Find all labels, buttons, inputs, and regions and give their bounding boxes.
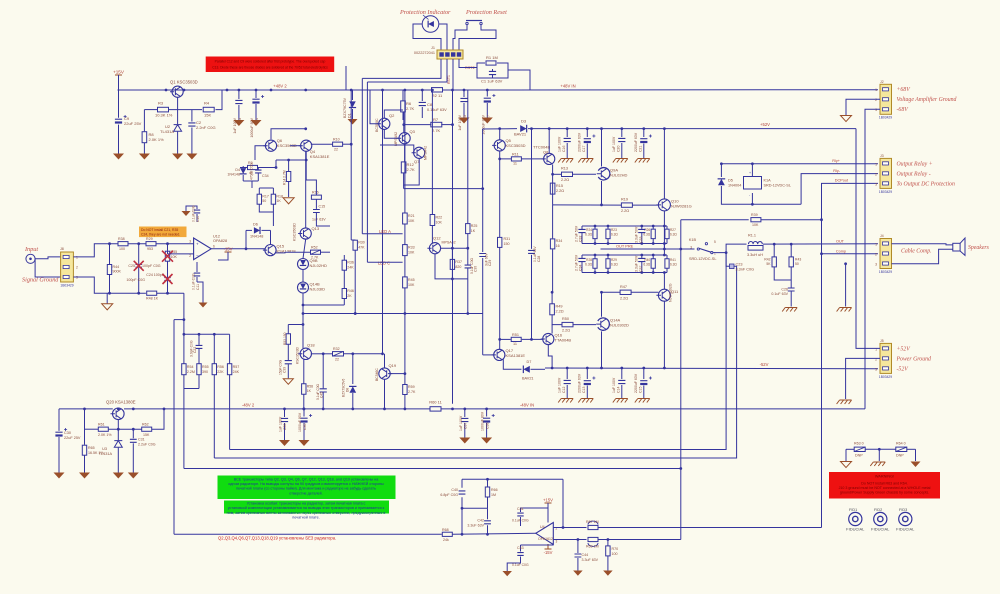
svg-text:2.2Ω: 2.2Ω	[561, 178, 569, 182]
svg-text:J10 3 ground must be NOT conne: J10 3 ground must be NOT connected at a …	[839, 486, 931, 490]
svg-text:J2: J2	[880, 80, 884, 84]
power ground solid	[911, 462, 921, 468]
svg-text:R44: R44	[113, 265, 120, 269]
resistor R31 150	[499, 159, 501, 238]
svg-text:C25: C25	[128, 264, 135, 268]
svg-text:2.7K: 2.7K	[408, 390, 416, 394]
svg-text:U4: U4	[540, 525, 545, 529]
svg-text:2.7K: 2.7K	[406, 106, 415, 111]
svg-text:900K: 900K	[113, 270, 122, 274]
svg-text:2.2uF C0G: 2.2uF C0G	[138, 443, 156, 447]
svg-text:C42: C42	[477, 519, 484, 523]
svg-text:1: 1	[76, 256, 78, 260]
capacitor C17 2200uF 63V	[586, 129, 588, 137]
svg-text:C20: C20	[617, 146, 621, 152]
svg-text:LED C: LED C	[378, 261, 390, 266]
transistor Q18 KSC3503D	[300, 348, 311, 359]
capacitor C14 1uF 100V	[621, 368, 623, 379]
svg-text:печатной плате.: печатной плате.	[292, 516, 320, 520]
vertical from Q12 node down to mid wire	[467, 279, 469, 314]
feedback loop wire 3	[184, 468, 681, 470]
svg-text:390: 390	[202, 370, 208, 374]
svg-text:3.3uF 50V: 3.3uF 50V	[635, 255, 639, 272]
long bus wire C	[366, 82, 368, 262]
wire Q1 base to divider	[177, 97, 179, 109]
svg-text:100pF C0G: 100pF C0G	[142, 264, 161, 268]
svg-text:3.3uF 63V: 3.3uF 63V	[582, 558, 599, 562]
op-amp supply bypass cap top C10	[196, 214, 198, 222]
op-amp output wire	[211, 248, 265, 250]
wire R67 to DCP vertical	[598, 527, 822, 529]
power -15V at op-amp	[225, 252, 232, 257]
svg-text:1B03429: 1B03429	[879, 190, 892, 194]
svg-text:C37: C37	[463, 423, 467, 429]
svg-text:Q12: Q12	[433, 236, 441, 241]
svg-text:R34: R34	[556, 239, 563, 243]
svg-text:R64 0: R64 0	[896, 442, 906, 446]
resistor R42 5K	[773, 244, 775, 256]
power rail -48V	[59, 408, 113, 410]
svg-text:C17: C17	[582, 146, 586, 152]
capacitor C25 100pF (not installed)	[138, 244, 140, 264]
resistor R25 1K	[467, 90, 469, 223]
capacitor C12 1uF 100V	[566, 368, 568, 379]
svg-text:1000uF 80V: 1000uF 80V	[481, 114, 485, 134]
resistor R70 100	[607, 540, 609, 546]
transistor Q12 MPSA42	[429, 243, 440, 254]
-52V power rail	[545, 367, 878, 370]
svg-text:Cable Comp.: Cable Comp.	[901, 249, 932, 255]
svg-text:C44: C44	[582, 553, 589, 557]
wire R54 R55 bottoms	[183, 375, 185, 389]
capacitor C30 22uF 25V	[58, 409, 60, 431]
svg-text:Q20 KSA1380E: Q20 KSA1380E	[106, 399, 136, 404]
resistor R29 953	[128, 243, 146, 245]
svg-text:1K: 1K	[276, 199, 281, 203]
svg-text:3: 3	[690, 246, 692, 250]
svg-text:R32: R32	[333, 347, 340, 351]
svg-text:BAV21: BAV21	[514, 132, 527, 137]
vertical x563 to servo +in	[562, 479, 564, 527]
svg-text:C23: C23	[736, 263, 743, 267]
svg-text:R26: R26	[644, 228, 650, 232]
earth ground below C39	[283, 379, 293, 385]
transistor Q6 KSC3503D	[265, 140, 276, 151]
svg-text:2: 2	[875, 98, 877, 102]
svg-text:R29: R29	[611, 258, 617, 262]
long bus wire E (R21 column)	[404, 90, 406, 213]
svg-text:R30: R30	[358, 241, 365, 245]
svg-text:TL431A: TL431A	[99, 452, 113, 456]
svg-text:+48V 2: +48V 2	[273, 83, 287, 88]
ground below R8	[139, 154, 150, 160]
svg-text:Rly+: Rly+	[832, 159, 840, 163]
svg-text:R55: R55	[202, 365, 209, 369]
capacitor C34 470pF C0G	[257, 168, 259, 170]
wire stub to servo column	[174, 319, 184, 321]
resistor R52 2.7K	[311, 250, 321, 254]
svg-text:K1B: K1B	[689, 238, 697, 242]
svg-text:OUT: OUT	[836, 239, 845, 243]
connector J3 output relay	[880, 158, 892, 188]
svg-text:FIDUCIAL: FIDUCIAL	[871, 527, 890, 532]
chassis ground below C20	[613, 159, 628, 163]
capacitor C45 0.1uF C0G	[311, 353, 323, 355]
wire Q15 emitter right	[275, 251, 285, 254]
svg-text:2: 2	[875, 173, 877, 177]
op-amp supply bypass cap bottom C11	[196, 262, 198, 272]
svg-text:1000uF 80V: 1000uF 80V	[298, 412, 302, 432]
capacitor C33 3.3uF 50V	[641, 226, 643, 229]
svg-text:11: 11	[513, 162, 517, 166]
connector J1 0022272041	[437, 50, 463, 59]
svg-text:Signal Ground: Signal Ground	[22, 277, 59, 284]
chassis ground below C14	[613, 399, 628, 403]
svg-text:-48V 2: -48V 2	[242, 403, 255, 408]
svg-text:10K: 10K	[408, 219, 415, 223]
connector J5 power 52V	[880, 343, 892, 373]
svg-text:2200uF 63V: 2200uF 63V	[634, 373, 638, 393]
wire C9 to ground	[118, 125, 120, 154]
svg-text:C21: C21	[639, 146, 643, 152]
resistor R47 2.2	[620, 290, 631, 294]
resistor R34 16	[552, 205, 554, 239]
svg-text:R53 150: R53 150	[283, 332, 287, 345]
svg-text:6.3Ω: 6.3Ω	[585, 233, 592, 237]
svg-text:C32: C32	[579, 236, 583, 242]
thermal diode Q9B NJL02HD	[298, 259, 309, 270]
svg-text:2: 2	[189, 254, 191, 258]
mid horizontal node wire	[303, 313, 483, 315]
svg-text:Q3: Q3	[410, 129, 416, 134]
warning red box	[829, 472, 940, 499]
ground below input network	[106, 293, 108, 304]
transistor Q2 BC550C	[379, 118, 390, 129]
resistor R8 2.0K 1%	[143, 110, 145, 132]
transistor Q4 KSA1381E	[301, 140, 312, 151]
svg-text:2.2M: 2.2M	[187, 370, 195, 374]
svg-text:Power Ground: Power Ground	[896, 357, 932, 363]
svg-text:OUT PRE: OUT PRE	[616, 244, 634, 249]
svg-text:6.3Ω: 6.3Ω	[643, 263, 650, 267]
resistor R59 2.7K	[404, 314, 406, 385]
ground below C43	[502, 571, 512, 576]
svg-text:FID2: FID2	[874, 508, 882, 512]
svg-text:3: 3	[875, 183, 877, 187]
svg-text:R45: R45	[408, 278, 415, 282]
wire Q6 collector to Q4 collector column	[271, 129, 306, 139]
resistor R57 24K	[229, 334, 231, 363]
resistor R55 390	[197, 364, 201, 375]
svg-text:6.3Ω: 6.3Ω	[670, 263, 677, 267]
connector J4 speakers	[880, 239, 892, 269]
svg-text:D8: D8	[345, 388, 349, 392]
svg-text:2.2Ω: 2.2Ω	[556, 310, 564, 314]
wire R57 bottom down	[229, 375, 231, 450]
svg-text:6.8pF C0G: 6.8pF C0G	[440, 493, 458, 497]
resistor R14 2.7M	[288, 160, 290, 171]
emitter resistor network R28 R29 R40 R41 bottom	[582, 254, 667, 256]
capacitor C38 1000uF 80V	[486, 409, 488, 417]
resistor R13 2.2	[562, 172, 573, 176]
capacitor C21 2200uF 63V	[643, 129, 645, 137]
svg-text:J8: J8	[60, 247, 64, 251]
svg-text:R1 1M: R1 1M	[486, 55, 498, 60]
svg-text:C34: C34	[579, 265, 583, 271]
svg-text:3.3uF 50V: 3.3uF 50V	[635, 226, 639, 243]
svg-text:C33: C33	[639, 237, 643, 243]
svg-text:C12: C12	[562, 387, 566, 393]
svg-text:BZX79C5V6: BZX79C5V6	[342, 379, 346, 397]
svg-text:R48 1K: R48 1K	[146, 297, 159, 301]
svg-text:Q1 KSC3503D: Q1 KSC3503D	[170, 80, 198, 85]
svg-text:953: 953	[147, 247, 153, 251]
svg-text:RST1: RST1	[447, 75, 451, 84]
svg-text:1M: 1M	[491, 493, 496, 497]
svg-text:5: 5	[714, 240, 716, 244]
svg-text:J5: J5	[880, 339, 884, 343]
resistor R50 2.2	[562, 322, 573, 326]
svg-text:470pF C0G: 470pF C0G	[250, 163, 254, 180]
svg-text:KSC3503D: KSC3503D	[296, 346, 300, 364]
svg-text:Q2,Q3,Q4,Q6,Q7,Q13,Q18,Q19 ус: Q2,Q3,Q4,Q6,Q7,Q13,Q18,Q19 установлены Б…	[218, 536, 336, 541]
svg-text:Do NOT install C21, R35: Do NOT install C21, R35	[141, 228, 178, 232]
svg-text:6: 6	[213, 245, 215, 249]
svg-text:FID1: FID1	[849, 508, 857, 512]
wire RCA to connector	[35, 257, 61, 259]
svg-text:KSC3503D: KSC3503D	[293, 223, 297, 241]
svg-text:Do NOT install R63 and R64.: Do NOT install R63 and R64.	[861, 482, 907, 486]
diode D6 1N4148	[246, 229, 252, 231]
capacitor C3 1uF 100V	[238, 90, 240, 99]
svg-text:1uF 63V: 1uF 63V	[312, 218, 326, 222]
shunt reference U2 TL431A	[177, 110, 179, 124]
transistor Q20 KSA1380E	[113, 408, 125, 420]
ground below C31	[128, 473, 139, 479]
ground below C38	[481, 438, 492, 444]
svg-text:R70: R70	[612, 547, 619, 551]
protection indicator LED D2	[422, 16, 439, 33]
capacitor C24 100pF (not installed)	[167, 261, 169, 277]
svg-text:24K: 24K	[233, 370, 240, 374]
capacitor C1 1uF 63V	[489, 71, 496, 74]
svg-text:C16: C16	[562, 146, 566, 152]
ground below C35	[279, 440, 290, 446]
capacitor C35 1uF 100V	[284, 409, 286, 417]
svg-text:R29: R29	[146, 237, 153, 241]
svg-text:-15V: -15V	[544, 550, 553, 555]
svg-text:C31: C31	[138, 438, 145, 442]
svg-text:0.1uF C0G: 0.1uF C0G	[512, 519, 529, 523]
svg-text:C37: C37	[639, 266, 643, 272]
svg-text:11: 11	[513, 342, 517, 346]
fiducial FID3	[899, 512, 912, 525]
capacitor C22 3.9pF C0G	[198, 334, 200, 345]
svg-text:2.2nF C0G: 2.2nF C0G	[196, 125, 216, 130]
svg-text:KSA1381E: KSA1381E	[310, 154, 330, 159]
wire to Q18 bias	[302, 314, 304, 325]
feedback loop wire 2	[214, 266, 736, 458]
svg-text:C45: C45	[320, 392, 324, 398]
svg-text:D5: D5	[728, 179, 733, 183]
connector J8 input	[61, 252, 74, 282]
svg-text:R7: R7	[433, 117, 439, 122]
wire J2 pin3 -68V down	[865, 109, 880, 409]
svg-text:1K: 1K	[471, 229, 476, 233]
op-amp U12 OPA828	[194, 238, 212, 260]
svg-text:50: 50	[262, 199, 266, 203]
resistor R49 2.2	[550, 304, 555, 315]
wire Q10 emitter to output resistors	[663, 211, 665, 249]
svg-text:DCPout: DCPout	[835, 179, 849, 183]
svg-text:MPSA42: MPSA42	[442, 241, 456, 245]
svg-text:C15: C15	[639, 387, 643, 393]
svg-text:установкой комплектации устана: установкой комплектации устанавливается …	[228, 506, 385, 510]
wire Q12 emitter loop	[435, 254, 468, 279]
svg-text:Установка особая: транзисторы: Установка особая: транзисторы на радиато…	[247, 502, 366, 506]
wire LED loop	[413, 24, 441, 50]
transistor Q7 MPSA42	[414, 147, 425, 158]
svg-text:820: 820	[455, 265, 461, 269]
svg-text:WARNING!: WARNING!	[875, 475, 894, 479]
resistor R64 0 DNP	[896, 447, 907, 451]
ground below C36	[299, 440, 310, 446]
wire divider rail	[144, 109, 157, 111]
zener D1 BZX79C75V	[352, 90, 354, 100]
green assembly note box	[218, 476, 396, 500]
svg-text:R62: R62	[142, 423, 149, 427]
svg-text:+: +	[749, 171, 751, 175]
resistor R36 24K	[342, 260, 346, 270]
diode D4 1N4148	[242, 166, 244, 168]
power transistor Q14A NJL0302D	[598, 318, 610, 330]
svg-text:C24 100pF: C24 100pF	[146, 273, 165, 277]
svg-text:6.3Ω: 6.3Ω	[611, 233, 618, 237]
resistor R4 15K	[203, 107, 214, 112]
svg-text:R50: R50	[562, 317, 569, 321]
capacitor C20 1uF 100V	[621, 129, 623, 137]
buffer transistor Q15 KSA1381E	[265, 245, 276, 256]
svg-text:2200uF 63V: 2200uF 63V	[634, 132, 638, 152]
wire op-amp -input	[168, 253, 194, 255]
svg-text:10.3K 1%: 10.3K 1%	[155, 113, 173, 118]
resistor R63 0 DNP	[854, 447, 865, 451]
resistor R17 50	[257, 194, 261, 204]
svg-text:1B03429: 1B03429	[879, 116, 892, 120]
svg-text:R11: R11	[512, 153, 519, 157]
resistor R46 2K	[342, 289, 346, 299]
resistor R2 11 (series in rail)	[432, 88, 443, 92]
transistor Q17 KSA1381E	[494, 349, 505, 360]
svg-text:D7: D7	[527, 360, 532, 364]
svg-text:KSA1381E: KSA1381E	[506, 353, 526, 358]
svg-text:R21: R21	[408, 214, 415, 218]
transistor Q11 NJW0302G	[658, 289, 670, 301]
resistor R7 2.7K	[431, 122, 442, 127]
svg-text:1uF 100V: 1uF 100V	[459, 415, 463, 431]
resistor R60 11	[430, 407, 441, 411]
fiducial FID2	[874, 512, 887, 525]
zener D8 BZX79C5V6	[352, 354, 354, 384]
svg-text:1N4148: 1N4148	[250, 235, 263, 239]
svg-text:R63 0: R63 0	[854, 442, 864, 446]
transistor QA KSC3503D upper	[300, 228, 311, 239]
ground below C9	[113, 154, 124, 160]
svg-text:C26: C26	[781, 288, 788, 292]
svg-text:−: −	[196, 253, 199, 258]
wire R69 to filter	[598, 539, 681, 541]
svg-text:+52V: +52V	[760, 122, 770, 127]
capacitor C15b 2200uF 63V	[643, 368, 645, 379]
resistor R69 1M	[588, 537, 598, 541]
svg-text:R3: R3	[158, 101, 164, 106]
chassis ground below C21	[635, 159, 650, 163]
capacitor C37b 3.3uF 50V	[641, 255, 643, 258]
capacitor C8 0.15uF 63V	[421, 90, 423, 101]
wire relay contact to inductor	[713, 244, 747, 253]
ground above op-amp	[182, 211, 191, 216]
power -15V servo	[547, 545, 549, 550]
long bus wire B	[361, 78, 363, 233]
svg-text:1uF 100V: 1uF 100V	[458, 114, 462, 130]
wire C1 node to rail	[508, 70, 530, 90]
svg-text:R38: R38	[118, 237, 125, 241]
wire LED A	[362, 233, 402, 235]
feedback loop wire 1	[230, 253, 726, 450]
svg-text:1K: 1K	[307, 389, 312, 393]
wire LED C	[367, 261, 402, 263]
servo column long vertical	[173, 320, 175, 535]
svg-text:C38: C38	[485, 423, 489, 429]
feedback divider top bus	[184, 333, 230, 335]
capacitor C44 3.3uF 63V	[577, 540, 579, 554]
svg-text:3: 3	[556, 540, 558, 544]
power rail +48V top	[118, 89, 432, 91]
svg-text:NJL02HD: NJL02HD	[310, 263, 327, 268]
svg-text:R4: R4	[204, 101, 210, 106]
resistor R22 10K	[431, 90, 433, 215]
emitter resistor network R24 R23 R26 R27 top	[582, 225, 667, 227]
transistor Q3 MPSA92	[399, 133, 410, 144]
resistor R53 150	[287, 325, 289, 334]
svg-text:R31: R31	[504, 237, 511, 241]
ground below C37	[459, 438, 470, 444]
svg-text:Input: Input	[24, 246, 38, 253]
wire servo -in	[553, 539, 586, 541]
wire J2 pin2 to earth ground	[846, 99, 880, 115]
resistor R6 2.7K	[402, 90, 404, 101]
resistor R65 16.5K 1%	[82, 445, 86, 455]
feedback node vertical	[183, 293, 185, 334]
relay coil K1A SRD-12VDC-SL	[744, 177, 762, 190]
svg-text:150: 150	[504, 242, 510, 246]
speaker symbol	[953, 243, 960, 251]
resistor R62 15K	[142, 427, 152, 431]
ground below op-amp cap	[197, 282, 203, 303]
svg-text:1uF 100V: 1uF 100V	[558, 136, 562, 152]
svg-text:To Output DC Protection: To Output DC Protection	[897, 182, 955, 188]
svg-text:ВСЕ транзисторы типа Q2, Q3, Q: ВСЕ транзисторы типа Q2, Q3, Q4, Q6, Q7,…	[234, 477, 379, 481]
svg-text:R17: R17	[262, 195, 269, 199]
svg-text:1B03429: 1B03429	[60, 284, 73, 288]
chassis ground below C15	[635, 399, 650, 403]
svg-text:Output Relay +: Output Relay +	[897, 162, 933, 168]
svg-text:R68: R68	[442, 528, 449, 532]
svg-text:FIDUCIAL: FIDUCIAL	[846, 527, 865, 532]
svg-text:22uF 25V: 22uF 25V	[64, 436, 81, 440]
resistor R48 1K	[147, 291, 157, 295]
svg-text:R36: R36	[347, 261, 354, 265]
